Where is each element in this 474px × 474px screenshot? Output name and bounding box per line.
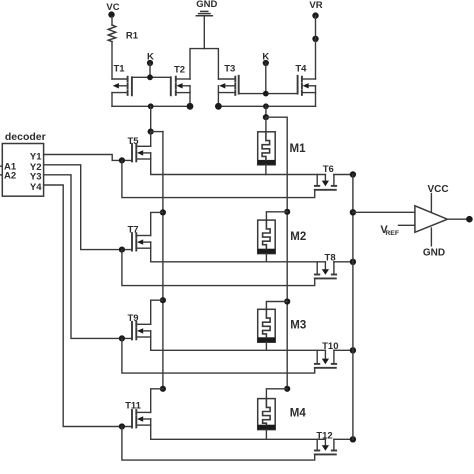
wire Y1 branch to T6 gate <box>122 160 315 197</box>
memristor M4 <box>258 399 307 430</box>
wire T5 drain <box>150 132 152 147</box>
net label K (T1 T2 gates) <box>147 51 154 66</box>
wire GND down <box>203 16 205 49</box>
wire T9 source to rail <box>151 331 326 350</box>
svg-text:VR: VR <box>309 0 322 11</box>
transistor T3 <box>218 63 238 95</box>
wire gate line T1-T2 <box>132 74 171 80</box>
transistor T6 <box>315 164 336 190</box>
wire M1 top lead <box>265 117 267 132</box>
wire Y3 branch to T10 gate <box>122 338 315 373</box>
wire Y4 to T11 gate <box>44 185 132 427</box>
svg-text:M2: M2 <box>290 231 306 243</box>
node T5 feed on left rail <box>148 103 154 109</box>
net label VR <box>309 0 322 19</box>
node T2 source <box>187 103 194 110</box>
wire right column vertical <box>352 175 354 440</box>
wire M bypass tap lead row4 <box>266 389 287 399</box>
op-amp U1 <box>415 206 448 233</box>
node row4 drain junction <box>160 386 166 392</box>
wire VR to T4 <box>315 16 317 79</box>
node Y1 branch <box>119 157 125 163</box>
node Y3 branch <box>119 335 125 341</box>
node T5 drain junction <box>148 129 154 135</box>
wire K to T1-T2 gate line <box>149 63 151 77</box>
wire GND bracket <box>190 49 218 79</box>
wire T7 source to rail <box>151 242 326 262</box>
node op-amp input tap <box>350 209 356 215</box>
decoder output label Y1 <box>30 152 42 163</box>
wire Y2 branch to T8 gate <box>122 250 315 286</box>
wire T column vertical <box>162 132 164 389</box>
node output terminal <box>466 216 473 223</box>
wire GND lead <box>430 228 432 246</box>
wire Y3 to T9 gate <box>44 175 132 339</box>
net label VC <box>106 2 119 18</box>
wire T3 source to rail <box>217 86 219 107</box>
wire T10 to right column <box>334 349 353 351</box>
wire VREF to inverting input <box>399 224 415 226</box>
resistor R1 <box>108 25 138 42</box>
wire gate line T3-T4 <box>239 91 298 97</box>
node M bypass tap row2 <box>284 209 290 215</box>
wire M3 bottom lead <box>265 342 267 350</box>
wire M bypass tap lead row3 <box>266 302 287 310</box>
transistor T4 <box>295 63 315 95</box>
wire M2 bottom lead <box>265 254 267 262</box>
svg-text:T5: T5 <box>127 136 139 147</box>
node right column row2 <box>350 259 356 265</box>
svg-text:T1: T1 <box>113 63 125 74</box>
svg-text:GND: GND <box>196 0 217 10</box>
decoder output label Y2 <box>30 162 42 173</box>
transistor T2 <box>171 64 190 95</box>
svg-text:T6: T6 <box>323 164 334 175</box>
node M bypass junction <box>263 114 269 120</box>
net label GND top <box>196 0 217 10</box>
wire Y1 to T5 gate <box>44 155 132 161</box>
wire VCC lead <box>430 194 432 212</box>
transistor T10 <box>315 341 339 368</box>
node T3 source <box>215 103 222 110</box>
wire rail T1-T2 (node A) <box>112 105 190 107</box>
wire op-amp non-inverting input <box>353 211 415 213</box>
wire VC to R1 <box>111 17 113 26</box>
svg-text:T4: T4 <box>295 63 307 74</box>
wire T2 source to rail <box>189 86 191 107</box>
wire row2 drain lead <box>151 212 163 235</box>
wire Y4 branch to T12 gate <box>122 427 315 461</box>
memristor M2 <box>258 220 307 254</box>
net label K (T3 T4 gates) <box>262 51 269 66</box>
transistor T12 <box>315 431 336 455</box>
node M bypass tap row3 <box>284 298 290 304</box>
svg-text:T2: T2 <box>174 64 185 75</box>
node M column feed <box>263 103 269 109</box>
wire left rail down to T5 junction <box>150 106 152 131</box>
memristor M3 <box>258 309 307 342</box>
transistor T9 <box>127 313 150 339</box>
transistor T7 <box>127 225 150 251</box>
svg-text:M1: M1 <box>290 143 307 155</box>
svg-text:GND: GND <box>423 248 445 259</box>
node row2 drain junction <box>160 209 166 215</box>
wire row4 drain lead <box>151 389 163 413</box>
svg-text:decoder: decoder <box>5 131 46 143</box>
transistor T5 <box>127 136 150 161</box>
wire branch to T column <box>151 131 163 133</box>
svg-text:REF: REF <box>385 230 399 237</box>
svg-text:Y4: Y4 <box>30 182 42 193</box>
wire T4 source to rail <box>315 86 317 107</box>
node right column row4 <box>350 436 356 442</box>
transistor T11 <box>125 401 151 428</box>
wire M bypass tap lead row2 <box>266 212 287 220</box>
wire T5 source to rail <box>151 153 326 175</box>
wire T1 source to rail <box>111 93 113 107</box>
svg-text:M4: M4 <box>290 408 307 420</box>
node right column row1 <box>350 171 356 177</box>
node Y4 branch <box>119 423 125 429</box>
wire op-amp output <box>447 218 467 220</box>
decoder input A1 <box>0 162 17 173</box>
decoder output label Y3 <box>30 172 42 183</box>
node Y2 branch <box>119 247 125 253</box>
svg-text:VC: VC <box>106 2 119 13</box>
decoder output label Y4 <box>30 182 42 193</box>
wire R1 to T1 drain <box>111 42 113 79</box>
memristor M1 <box>258 132 306 165</box>
wire row3 drain lead <box>151 300 163 324</box>
wire T11 source to rail <box>151 419 326 439</box>
svg-text:VCC: VCC <box>427 184 448 195</box>
node M bypass tap row4 <box>284 386 290 392</box>
net label VCC <box>427 184 448 195</box>
svg-text:M3: M3 <box>290 320 306 332</box>
wire K to T3-T4 gate line <box>265 63 267 94</box>
node VR junction <box>312 36 318 42</box>
wire T12 to right column <box>334 438 353 440</box>
transistor T1 <box>112 63 132 95</box>
wire M1 bottom lead <box>265 165 267 175</box>
wire T6 to right column <box>334 174 353 176</box>
wire T8 to right column <box>334 261 353 263</box>
node row3 drain junction <box>160 297 166 303</box>
wire M bypass column <box>266 117 287 389</box>
svg-text:T12: T12 <box>316 431 332 442</box>
svg-text:A2: A2 <box>4 170 16 181</box>
wire rail T3-T4 (node B) <box>218 105 315 107</box>
svg-text:T11: T11 <box>125 401 142 412</box>
decoder input A2 <box>0 170 16 181</box>
net label VREF <box>380 224 399 237</box>
transistor T8 <box>315 253 336 279</box>
wire M4 bottom lead <box>265 430 267 440</box>
net label GND op-amp <box>423 248 445 259</box>
wire M feed down <box>265 106 267 117</box>
decoder block <box>2 131 45 196</box>
svg-text:R1: R1 <box>126 31 139 42</box>
wire Y2 to T7 gate <box>44 165 132 250</box>
ground symbol <box>196 11 212 15</box>
svg-text:T3: T3 <box>224 63 235 74</box>
node right column row3 <box>350 347 356 353</box>
